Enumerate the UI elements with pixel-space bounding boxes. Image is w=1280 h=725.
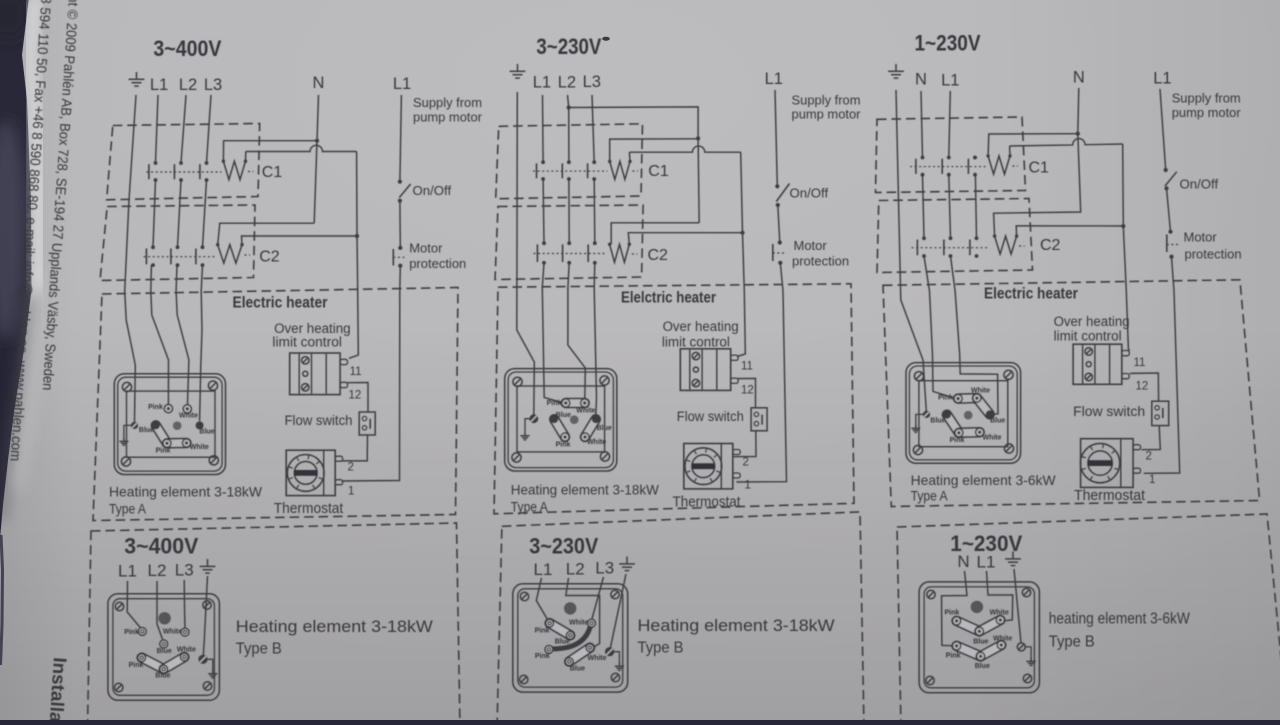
svg-text:On/Off: On/Off [1180,177,1219,192]
svg-text:Blue: Blue [973,639,988,646]
svg-text:L1: L1 [977,553,996,572]
svg-text:Over heating: Over heating [663,319,739,334]
svg-text:Blue: Blue [199,429,214,436]
svg-text:11: 11 [741,361,753,373]
svg-text:White: White [179,413,198,420]
svg-text:L3: L3 [595,559,614,578]
svg-text:Pink: Pink [129,662,144,669]
svg-text:Blue: Blue [975,663,990,670]
svg-text:C2: C2 [259,249,280,266]
svg-text:N: N [957,552,969,571]
svg-text:Blue: Blue [157,648,172,655]
svg-text:On/Off: On/Off [413,183,452,198]
svg-text:pump motor: pump motor [1172,105,1242,120]
svg-text:Elelctric heater: Elelctric heater [621,290,716,307]
svg-text:Type B: Type B [1049,634,1095,651]
svg-text:White: White [177,647,196,654]
svg-text:C2: C2 [1040,237,1061,254]
svg-text:C1: C1 [262,164,283,181]
svg-text:limit control: limit control [272,335,342,350]
svg-text:Pink: Pink [547,400,562,407]
svg-text:3~400V: 3~400V [124,534,198,559]
svg-text:L2: L2 [148,561,167,580]
svg-text:On/Off: On/Off [790,186,829,201]
svg-text:Pink: Pink [556,441,571,448]
svg-text:Thermostat: Thermostat [274,501,344,517]
svg-text:Pink: Pink [156,447,171,454]
svg-text:Blue: Blue [570,665,585,672]
svg-text:Flow switch: Flow switch [677,408,744,424]
svg-text:White: White [993,636,1012,643]
svg-text:Pink: Pink [535,653,550,660]
svg-text:L2: L2 [566,559,585,578]
svg-text:11: 11 [1134,357,1146,369]
svg-text:1: 1 [348,486,354,498]
svg-text:Blue: Blue [555,639,570,646]
svg-text:Supply from: Supply from [413,95,482,110]
svg-text:12: 12 [349,389,362,401]
svg-text:White: White [576,408,595,415]
svg-text:White: White [587,655,606,662]
svg-text:3~230V: 3~230V [529,534,598,559]
svg-text:L1: L1 [118,562,137,581]
svg-text:L1: L1 [941,72,959,90]
svg-text:White: White [990,610,1009,617]
svg-text:Blue: Blue [556,412,571,419]
svg-text:White: White [587,439,606,446]
svg-text:Pink: Pink [938,395,953,402]
svg-text:L2: L2 [179,76,197,94]
svg-text:11: 11 [350,366,362,378]
svg-text:protection: protection [409,256,466,271]
svg-text:C1: C1 [648,163,669,180]
svg-text:Type A: Type A [109,501,147,517]
svg-text:Heating element 3-18kW: Heating element 3-18kW [511,482,660,498]
svg-text:N: N [313,74,325,92]
svg-text:L3: L3 [175,561,194,580]
svg-text:White: White [163,629,182,636]
svg-text:Motor: Motor [1184,230,1218,245]
svg-text:Electric heater: Electric heater [233,295,328,312]
svg-text:White: White [569,619,588,626]
svg-text:C2: C2 [648,247,669,264]
svg-text:Type B: Type B [638,640,684,657]
svg-text:12: 12 [741,385,754,397]
svg-text:White: White [971,387,990,394]
svg-text:Electric heater: Electric heater [984,286,1078,303]
svg-text:1: 1 [745,480,751,492]
svg-text:L1: L1 [150,76,168,94]
svg-text:Over heating: Over heating [1054,314,1130,329]
svg-text:limit control: limit control [662,335,730,350]
svg-text:12: 12 [1136,381,1149,393]
svg-text:White: White [982,435,1001,442]
svg-text:Pink: Pink [946,653,961,660]
svg-text:protection: protection [1185,247,1242,262]
svg-text:pump motor: pump motor [413,110,483,125]
svg-text:Pink: Pink [535,627,550,634]
svg-text:3~400V: 3~400V [153,36,221,61]
svg-text:White: White [190,444,209,451]
svg-text:L1: L1 [1153,70,1171,88]
svg-text:protection: protection [792,254,849,269]
svg-text:L2: L2 [558,73,576,91]
svg-text:L3: L3 [204,76,222,94]
svg-text:2: 2 [743,457,749,469]
svg-text:Pink: Pink [124,629,139,636]
svg-text:L1: L1 [534,560,553,579]
svg-text:Type A: Type A [511,499,549,515]
svg-text:Heating element 3-18kW: Heating element 3-18kW [109,484,263,500]
svg-text:Pink: Pink [148,404,163,411]
svg-text:limit control: limit control [1054,329,1122,344]
svg-text:Blue: Blue [155,673,170,680]
svg-text:heating element 3-6kW: heating element 3-6kW [1049,611,1190,628]
svg-text:Blue: Blue [597,425,612,432]
svg-text:Flow switch: Flow switch [1073,403,1145,419]
svg-text:Heating element 3-6kW: Heating element 3-6kW [911,472,1057,488]
svg-text:Heating element 3-18kW: Heating element 3-18kW [236,618,433,636]
svg-text:Supply from: Supply from [1172,91,1241,106]
svg-text:1~230V: 1~230V [915,31,981,56]
svg-text:L3: L3 [583,73,601,91]
svg-text:Blue: Blue [990,418,1005,425]
svg-text:Thermostat: Thermostat [1074,488,1145,504]
svg-text:3~230V: 3~230V [536,34,601,59]
svg-text:1: 1 [1149,474,1155,486]
svg-text:Motor: Motor [409,241,443,256]
svg-text:Flow switch: Flow switch [285,412,353,428]
svg-text:Supply from: Supply from [792,93,861,108]
svg-text:N: N [1073,69,1085,87]
svg-text:2: 2 [1146,451,1152,463]
svg-text:Blue: Blue [139,427,154,434]
svg-text:L1: L1 [533,74,551,92]
svg-text:Type B: Type B [236,641,282,658]
svg-text:L1: L1 [765,70,783,88]
svg-text:L1: L1 [393,75,411,93]
svg-text:Blue: Blue [930,418,945,425]
svg-text:Thermostat: Thermostat [673,495,741,511]
svg-text:N: N [915,71,927,89]
svg-text:Heating element 3-18kW: Heating element 3-18kW [638,617,835,635]
svg-text:Pink: Pink [950,437,965,444]
svg-text:C1: C1 [1029,159,1050,176]
svg-text:Pink: Pink [945,610,960,617]
svg-text:2: 2 [348,462,354,474]
svg-text:pump motor: pump motor [792,107,862,122]
svg-text:Type A: Type A [911,488,949,504]
svg-text:Motor: Motor [794,238,828,253]
